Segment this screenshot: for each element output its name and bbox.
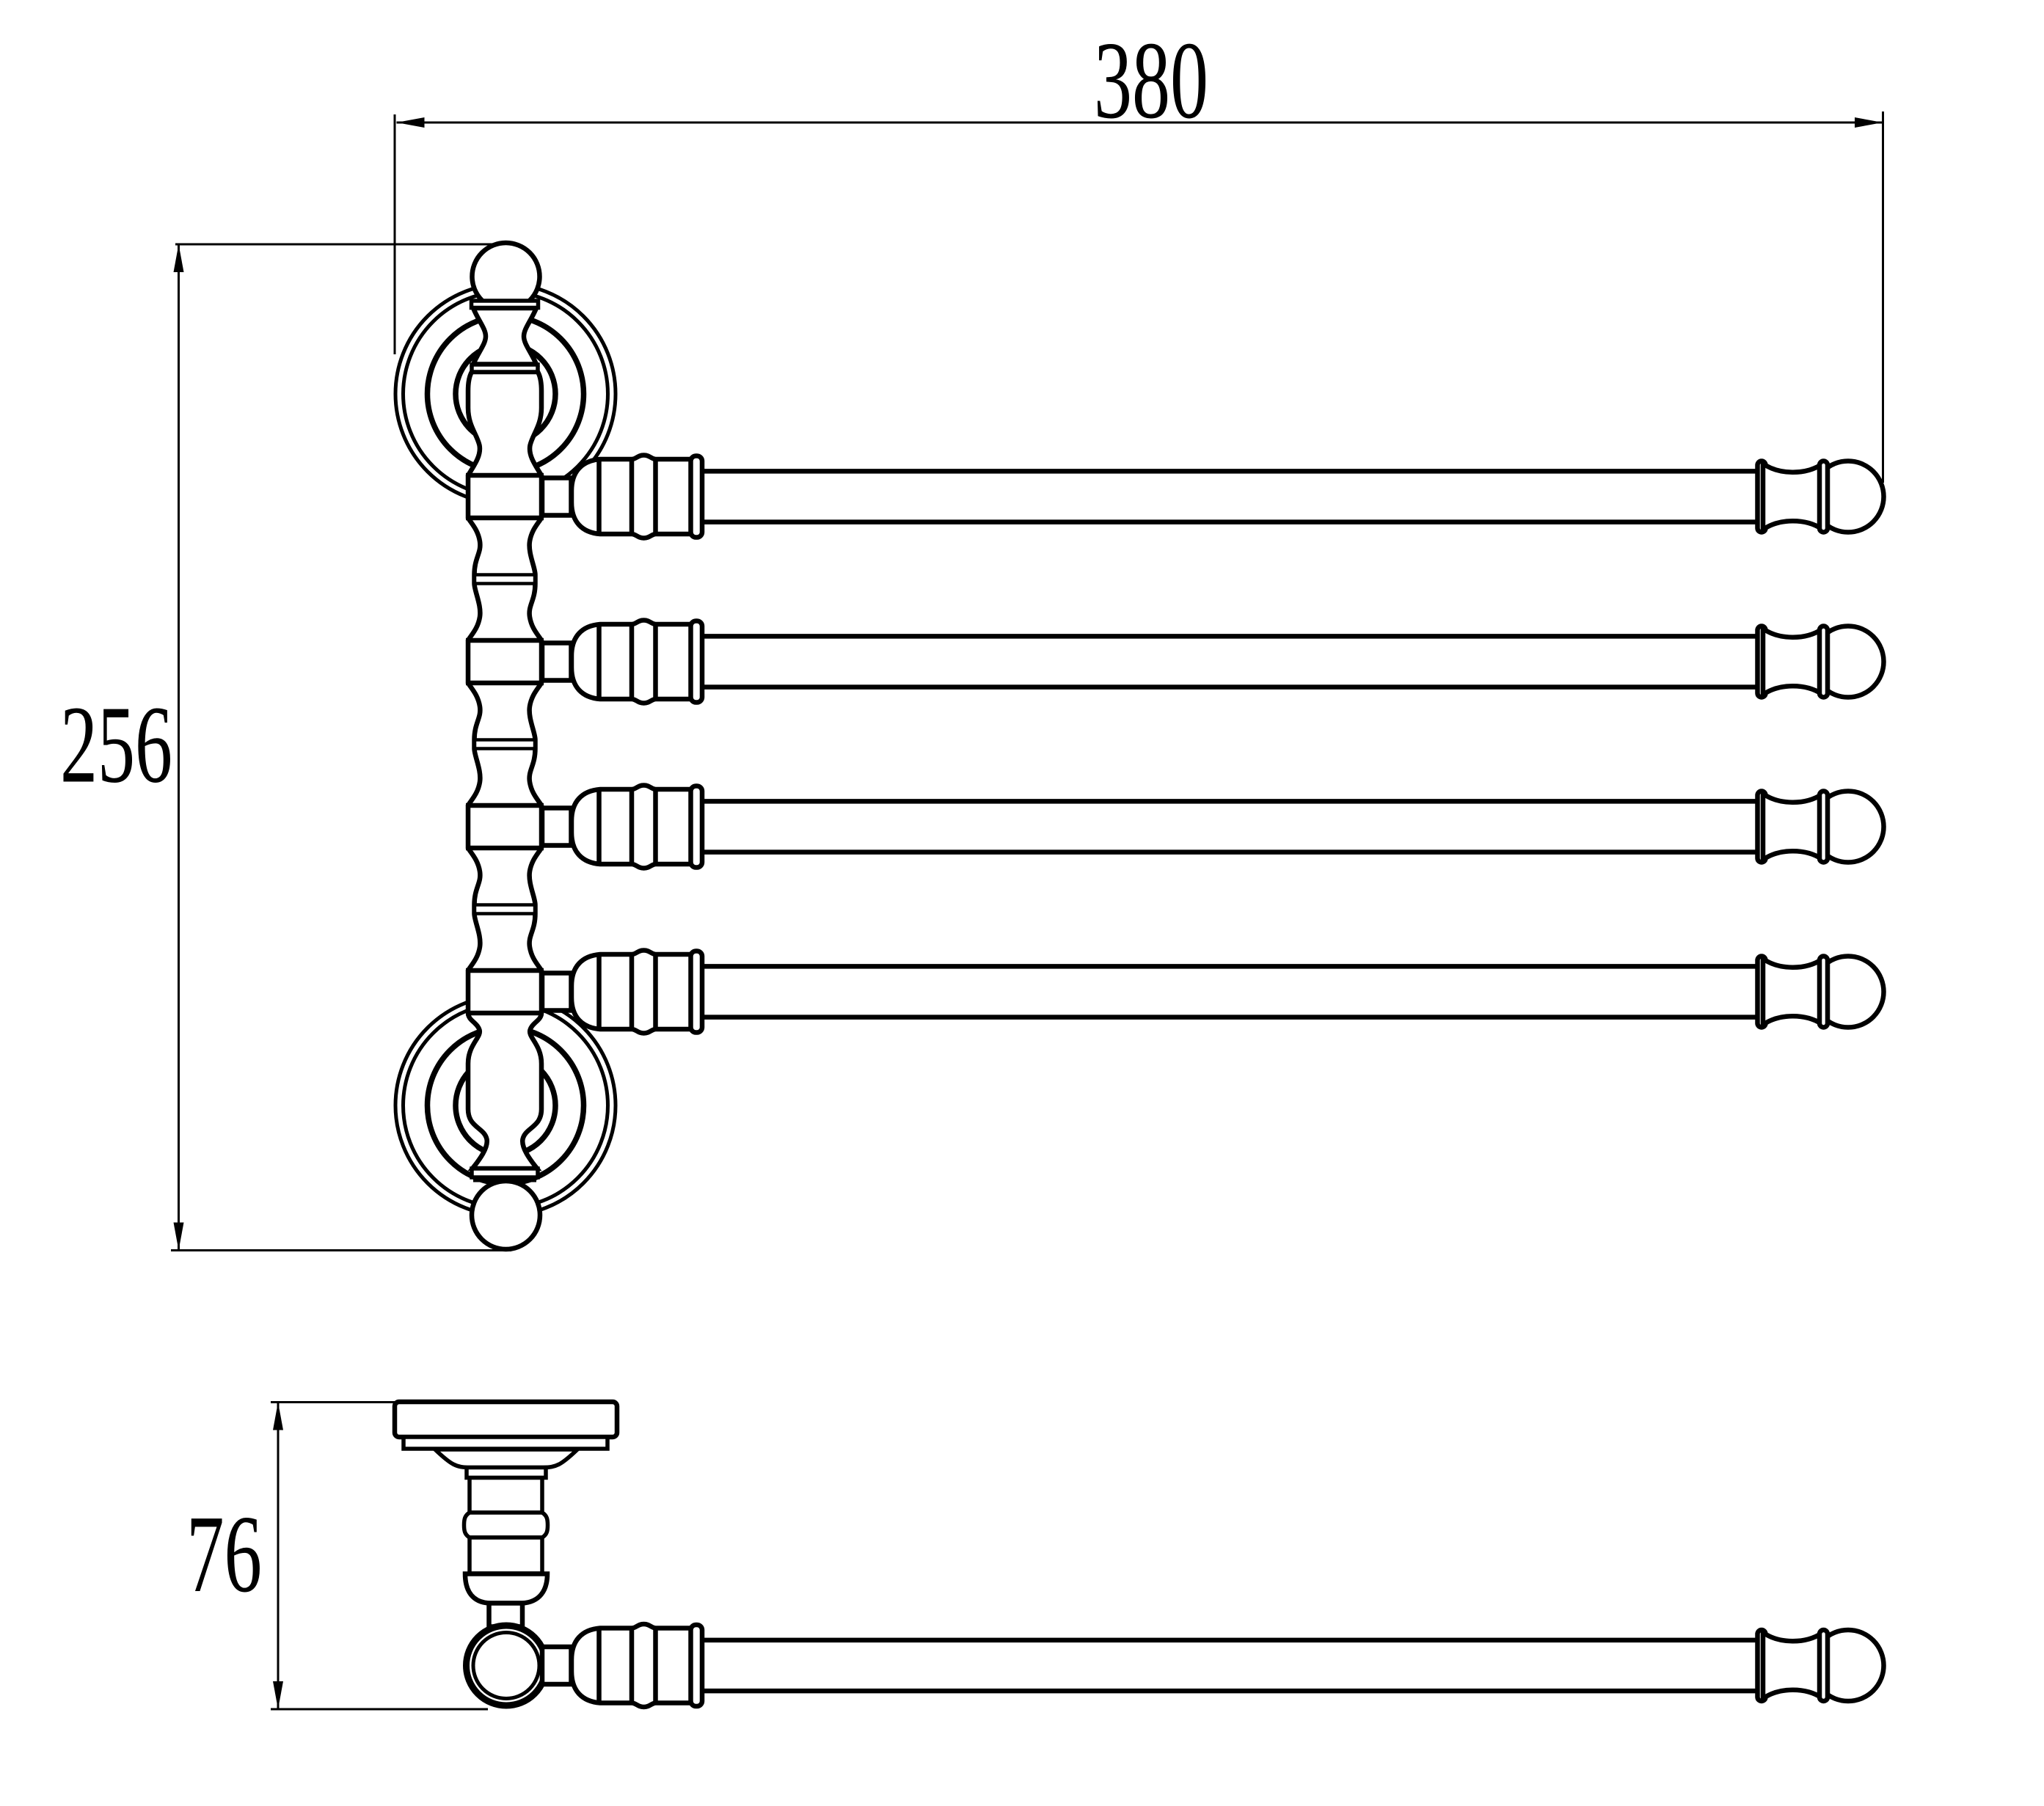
side view swivel ring inner bbox=[473, 1633, 539, 1699]
arm 4 bar rail bottom edge bbox=[702, 1014, 1760, 1020]
side view stem lower bbox=[470, 1538, 542, 1573]
arm 3 end spool bbox=[1763, 794, 1822, 860]
arm 1 bar rail top edge bbox=[702, 469, 1760, 474]
arm 1 hub flange ring bbox=[691, 456, 703, 538]
arm 1 end spool bbox=[1763, 464, 1822, 530]
side view wall plate bbox=[395, 1402, 617, 1437]
arm 3 hub body bbox=[572, 786, 693, 869]
side arm end spool bbox=[1763, 1633, 1822, 1699]
post collar edges bbox=[466, 473, 544, 478]
arm 2 end cap outer ring bbox=[1819, 626, 1828, 698]
side arm bar rail top edge bbox=[702, 1638, 1760, 1643]
dim 76 extension line top bbox=[271, 1401, 395, 1403]
post lower bead disc bbox=[472, 1169, 538, 1177]
side arm end cap outer ring bbox=[1819, 1630, 1828, 1701]
arm 4 end ball bbox=[1813, 957, 1884, 1028]
side view pivot neck bbox=[489, 1604, 523, 1627]
side arm end cap inner ring bbox=[1758, 1630, 1766, 1701]
arm 4 bar rail top edge bbox=[702, 964, 1760, 969]
bottom wall rosette concentric rings bbox=[395, 995, 616, 1215]
arm 3 bar rail bottom edge bbox=[702, 849, 1760, 855]
side view stem upper bbox=[470, 1478, 542, 1513]
arm 4 connector link bbox=[542, 973, 572, 1011]
arm 1 connector link bbox=[542, 478, 572, 516]
arm 2 end ball bbox=[1813, 626, 1884, 698]
side arm connector link bbox=[542, 1647, 572, 1684]
side arm bar rail bottom edge bbox=[702, 1689, 1760, 1694]
side view bell skirt bbox=[435, 1449, 577, 1468]
arm 2 hub flange ring bbox=[691, 621, 703, 703]
arm 2 hub body bbox=[572, 621, 693, 703]
svg-text:380: 380 bbox=[1094, 18, 1208, 142]
arm 1 bar rail bottom edge bbox=[702, 519, 1760, 524]
dim 380 dimension line bbox=[397, 122, 1883, 124]
arm 3 bar rail top edge bbox=[702, 799, 1760, 804]
post lower bead band bbox=[473, 1177, 536, 1182]
dim 380 extension line right bbox=[1882, 111, 1884, 483]
arm 1 hub ridge lines bbox=[596, 459, 602, 534]
arm 3 hub ridge lines bbox=[596, 789, 602, 864]
arm 4 end cap outer ring bbox=[1819, 957, 1828, 1028]
dim 256 extension line bottom bbox=[171, 1249, 511, 1251]
side arm hub flange ring bbox=[691, 1625, 703, 1706]
dim 256 extension line top bbox=[175, 244, 497, 246]
dim 256 dimension line bbox=[178, 244, 180, 1251]
side view stem bulge ring bbox=[464, 1513, 548, 1538]
arm 3 end cap inner ring bbox=[1758, 792, 1766, 863]
side view skirt collar bbox=[467, 1468, 546, 1478]
side view bowl cap bbox=[465, 1574, 547, 1604]
side view plate step bbox=[404, 1437, 607, 1449]
arm 2 end cap inner ring bbox=[1758, 626, 1766, 698]
dim 256 arrow top bbox=[174, 244, 184, 272]
dim 76 extension line bottom bbox=[271, 1708, 488, 1711]
side arm hub ridge lines bbox=[596, 1628, 602, 1703]
side arm hub body bbox=[572, 1624, 693, 1707]
dim 380 extension line left bbox=[394, 114, 396, 354]
dim 76 arrow top bbox=[273, 1403, 283, 1430]
dim 256 arrow bottom bbox=[174, 1223, 184, 1251]
post finial collar disc top bbox=[472, 301, 539, 308]
post bamboo ring bands bbox=[475, 575, 535, 584]
post upper neck vase bbox=[473, 308, 536, 365]
arm 2 bar rail top edge bbox=[702, 634, 1760, 639]
post turned trunk bbox=[468, 372, 541, 1169]
arm 1 hub body bbox=[572, 456, 693, 538]
side arm end ball bbox=[1813, 1630, 1884, 1701]
top wall rosette concentric rings bbox=[395, 284, 616, 504]
post top finial ball bbox=[472, 243, 540, 310]
dim 76 arrow bottom bbox=[273, 1681, 283, 1709]
arm 1 end ball bbox=[1813, 461, 1884, 533]
arm 3 end ball bbox=[1813, 792, 1884, 863]
side view swivel ring outer bbox=[467, 1626, 547, 1706]
arm 2 end spool bbox=[1763, 629, 1822, 695]
arm 2 bar rail bottom edge bbox=[702, 684, 1760, 690]
arm 3 connector link bbox=[542, 808, 572, 846]
arm 3 hub flange ring bbox=[691, 786, 703, 868]
arm 4 hub flange ring bbox=[691, 951, 703, 1033]
arm 2 hub ridge lines bbox=[596, 624, 602, 699]
post upper bead disc bbox=[472, 365, 538, 372]
arm 4 hub ridge lines bbox=[596, 954, 602, 1029]
arm 1 end cap inner ring bbox=[1758, 461, 1766, 533]
arm 4 hub body bbox=[572, 951, 693, 1034]
svg-text:256: 256 bbox=[60, 683, 172, 806]
arm 4 end cap inner ring bbox=[1758, 957, 1766, 1028]
dim 380 arrow right bbox=[1855, 117, 1883, 128]
arm 3 end cap outer ring bbox=[1819, 792, 1828, 863]
dim 76 dimension line bbox=[277, 1403, 280, 1710]
post bottom finial ball bbox=[472, 1181, 540, 1249]
arm 4 end spool bbox=[1763, 959, 1822, 1025]
dim 380 arrow left bbox=[397, 117, 425, 128]
arm 1 end cap outer ring bbox=[1819, 461, 1828, 533]
arm 2 connector link bbox=[542, 643, 572, 681]
svg-text:76: 76 bbox=[186, 1492, 262, 1615]
